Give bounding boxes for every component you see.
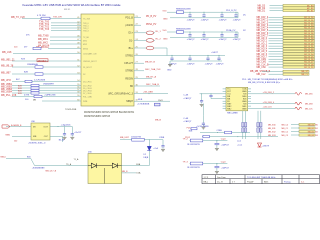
wire to resistor bar: [270, 5, 284, 7]
resistor bar MC_B1: [283, 9, 315, 11]
U8 right pin1 wire: [50, 126, 65, 128]
svg-text:MB_C2: MB_C2: [282, 131, 290, 133]
svg-text:MB_DAT_4: MB_DAT_4: [257, 27, 269, 30]
capacitor C chain: [221, 12, 223, 15]
wire to resistor bar: [269, 48, 284, 50]
svg-text:TX8_TX3: TX8_TX3: [39, 28, 50, 31]
svg-text:MB: MB: [33, 99, 37, 101]
svg-text:B1A: B1A: [136, 163, 141, 166]
wire D30 out: [122, 165, 150, 167]
U1 right pin REGIN stub: [134, 77, 141, 79]
svg-text:PWB: PWB: [83, 101, 88, 103]
svg-text:47K: 47K: [26, 35, 30, 37]
resistor bar MC_B_D9: [283, 66, 315, 68]
svg-text:MB_CLK: MB_CLK: [305, 108, 313, 110]
wire top rail: [120, 139, 163, 141]
wire MLB row: [141, 100, 170, 102]
U1 right pin B1+ stub: [134, 47, 141, 49]
svg-text:MB_DB3: MB_DB3: [305, 103, 313, 105]
svg-text:+2B079: +2B079: [262, 146, 270, 148]
resistor bar MC_B_D7: [283, 61, 315, 63]
ground C72: [70, 136, 74, 138]
svg-text:TCG 8B-6,8W TCA05-8B 64Gr: TCG 8B-6,8W TCA05-8B 64Gr: [247, 176, 276, 179]
ground for C61: [200, 103, 204, 105]
small power box: [155, 103, 161, 106]
svg-text:Pamog: Pamog: [284, 181, 290, 183]
svg-text:MB_TX80: MB_TX80: [38, 34, 49, 37]
ground: [215, 148, 219, 150]
harness wire +CB_DB3_4: [251, 103, 295, 105]
svg-text:D3_CFG1: D3_CFG1: [83, 81, 92, 83]
svg-text:+CAPQT: +CAPQT: [219, 38, 228, 41]
capacitor C chain3: [207, 55, 209, 58]
svg-text:T1_A: T1_A: [74, 158, 79, 161]
J2 pin left B1 stub: [223, 100, 226, 102]
svg-text:RL_2: RL_2: [156, 39, 162, 41]
resistor R15: [35, 73, 43, 75]
svg-text:MB.MB07: MB.MB07: [38, 60, 46, 62]
svg-text:MBC=MBB: MBC=MBB: [227, 112, 238, 114]
svg-text:MB_DB1: MB_DB1: [305, 94, 313, 96]
svg-text:+CAPQT: +CAPQT: [216, 63, 225, 66]
J2 pin left MBJ stub: [223, 108, 226, 110]
J2 pin left MB stub: [223, 98, 226, 100]
U1 left pin TX8_0 wire: [51, 22, 81, 24]
wire to resistor bar: [269, 32, 284, 34]
svg-text:PQQA *: PQQA *: [247, 180, 254, 183]
wire to resistor bar: [269, 45, 284, 47]
svg-text:Da_ B: Da_ B: [217, 181, 223, 183]
resistor bar: [299, 134, 315, 136]
capacitor C62: [210, 94, 212, 96]
U1 right pin B0 stub: [134, 85, 141, 87]
svg-text:D2: D2: [83, 74, 85, 76]
resistor R11 on TX_1V8 line: [41, 17, 50, 20]
svg-text:4.7K DNI: 4.7K DNI: [37, 15, 46, 17]
wire to resistor bar: [269, 27, 284, 29]
svg-text:MB_UH3: MB_UH3: [1, 79, 11, 82]
svg-text:MB_B11: MB_B11: [268, 128, 276, 130]
svg-text:MB_DAT_1: MB_DAT_1: [257, 19, 269, 22]
U1 left pin CLK/UART_CM wire: [13, 53, 81, 55]
svg-text:MB_AD_2: MB_AD_2: [257, 42, 268, 45]
wire to resistor bar: [269, 24, 284, 26]
svg-text:STRB0: STRB0: [125, 70, 133, 73]
resistor bar MC_B_D8: [283, 63, 315, 65]
chain3 ground rail: [170, 60, 222, 62]
svg-text:BB+): BB+): [204, 181, 209, 183]
svg-text:RXX: RXX: [21, 58, 26, 60]
svg-text:MB_B: MB_B: [122, 171, 128, 173]
connector J2 block: [226, 87, 248, 111]
resistor bar: [299, 127, 315, 129]
svg-text:+CbC2T: +CbC2T: [74, 132, 82, 134]
svg-text:MX2: MX2: [83, 44, 87, 46]
resistor bar MC_B_D4: [283, 53, 315, 55]
svg-text:MB_B1: MB_B1: [308, 128, 314, 130]
U1 left pin TX_B0 wire: [50, 36, 81, 38]
wire to resistor bar: [269, 56, 284, 58]
svg-text:MCIMX515JM8C IMX515: MCIMX515JM8C IMX515: [84, 116, 111, 118]
J2 pin right T1B stub: [248, 93, 251, 95]
svg-text:C+68: C+68: [183, 95, 189, 97]
svg-text:MB_AD_0: MB_AD_0: [257, 37, 268, 40]
svg-text:MB_AD_7: MB_AD_7: [257, 55, 268, 58]
svg-text:PD1_B: PD1_B: [125, 17, 133, 20]
common mode choke section: [260, 123, 262, 127]
U1 right pin URC_GROUR/B+AC_3 stub: [134, 93, 141, 95]
resistor bar MB_CL: [283, 73, 309, 75]
svg-text:D1+: D1+: [129, 32, 134, 35]
svg-text:MB_C3: MB_C3: [282, 135, 290, 137]
J2 pin right B05 stub: [248, 98, 251, 100]
chain ground rail: [170, 17, 238, 19]
net label MB_BT_B: [141, 62, 144, 64]
svg-text:MB_C1: MB_C1: [282, 128, 290, 130]
svg-text:MB_B10: MB_B10: [268, 124, 277, 126]
svg-text:+2d977: +2d977: [211, 52, 219, 54]
wire to resistor bar: [269, 19, 284, 21]
svg-text:MB_AD_3: MB_AD_3: [257, 45, 268, 48]
U1 left pin TX8_2 wire: [51, 27, 81, 29]
svg-text:RL5532DNTB: RL5532DNTB: [187, 167, 200, 169]
U1 left pin PUL_CMD wire: [12, 96, 81, 98]
svg-text:500: 500: [25, 99, 29, 101]
svg-text:C2BB: C2BB: [159, 137, 165, 139]
ground: [215, 171, 219, 173]
svg-text:PD5 : MB_TX8 DAT.TX8 MB(BBMHH): PD5 : MB_TX8 DAT.TX8 MB(BBMHH) B2B2 xxBB…: [242, 78, 292, 81]
svg-text:+CAPQT: +CAPQT: [233, 18, 242, 21]
svg-text:MC_B_D9: MC_B_D9: [304, 67, 314, 69]
svg-text:Cqwt: Cqwt: [221, 160, 226, 163]
svg-text:MB_UB1_21: MB_UB1_21: [1, 58, 15, 61]
svg-text:TUV31426B: TUV31426B: [65, 109, 77, 111]
common mode choke section: [257, 123, 259, 127]
svg-text:D1_BOOT: D1_BOOT: [83, 67, 93, 69]
capacitor C chain3: [189, 55, 191, 58]
resistor bar MC_B_D0: [283, 42, 315, 44]
svg-text:B+MB2B_B: B+MB2B_B: [11, 125, 22, 127]
capacitor C71: [64, 127, 66, 132]
feed row2 resistor: [203, 135, 210, 138]
svg-text:CLP: CLP: [44, 136, 49, 138]
title block table: [202, 175, 320, 184]
wire to resistor bar: [270, 7, 284, 9]
svg-text:MB_DAT_3: MB_DAT_3: [257, 24, 269, 27]
IC U8 level shifter: [31, 123, 50, 140]
svg-text:URC_GROUR/B+AC_3: URC_GROUR/B+AC_3: [108, 93, 134, 96]
wire to resistor bar: [269, 29, 284, 31]
capacitor C chain: [189, 32, 191, 35]
resistor bar MC_B_D0: [283, 16, 315, 18]
svg-text:MB_DAT_2: MB_DAT_2: [257, 21, 269, 24]
U1 left pin D4_CFG2 wire: [12, 85, 81, 87]
ground for C63: [201, 126, 205, 128]
DNI red box marker on UB1 row: [37, 59, 48, 62]
svg-text:REGIN: REGIN: [125, 77, 133, 80]
svg-text:MB_UBT: MB_UBT: [120, 137, 130, 139]
svg-text:CMD/UL_BOOT: CMD/UL_BOOT: [83, 61, 98, 63]
capacitor C72 branch: [65, 126, 73, 128]
svg-text:PD5: PD5: [187, 127, 192, 129]
feed row1 left resistor: [191, 128, 197, 130]
wire row STRB1 join chain3 rail: [141, 55, 170, 57]
wire: [190, 140, 228, 142]
svg-text:MB_DAT_7: MB_DAT_7: [257, 34, 269, 37]
svg-text:D1A: D1A: [136, 172, 141, 175]
resistor bar MC_B_D6: [283, 32, 315, 34]
U8 left pin 1 wire: [6, 126, 31, 128]
junction dot: [149, 139, 150, 140]
svg-text:PD5_B_PV: PD5_B_PV: [226, 10, 237, 12]
svg-text:RL_1: RL_1: [156, 31, 162, 33]
svg-text:MB_TX_1V8: MB_TX_1V8: [11, 16, 25, 19]
resistor R18 on PUL line: [34, 95, 42, 97]
chain rail wire: [184, 31, 239, 33]
wire URC row with label: [141, 93, 168, 95]
svg-text:+CAPQT: +CAPQT: [187, 18, 196, 21]
resistor bar MC_B_D5: [283, 56, 315, 58]
svg-text:TX_1V8: TX_1V8: [83, 18, 90, 20]
svg-text:PD5A_PV: PD5A_PV: [146, 23, 157, 26]
svg-text:+CB_DB1_2: +CB_DB1_2: [263, 92, 275, 94]
svg-text:MBJ: MBJ: [227, 108, 231, 110]
resistor: [190, 139, 203, 142]
svg-text:Dan Dam: Dan Dam: [217, 177, 226, 179]
U1 right pin CPLLVT stub: [134, 62, 141, 64]
svg-text:OUT: OUT: [43, 126, 48, 128]
resistor bar: [299, 123, 315, 125]
diode D30B: [96, 165, 112, 167]
junction: [216, 163, 217, 164]
svg-text:GMB: GMB: [242, 108, 247, 110]
svg-text:+CAPQT: +CAPQT: [221, 144, 230, 147]
U1 right pin pASV0 stub: [134, 24, 141, 26]
wire to resistor bar: [269, 73, 284, 75]
common mode choke section: [244, 123, 246, 127]
svg-text:MB_U17_B: MB_U17_B: [46, 170, 57, 172]
wire to resistor bar: [269, 37, 284, 39]
chain rail wire: [184, 11, 239, 13]
U1 right pin D1- stub: [134, 39, 141, 41]
ferrite bead FB row 48 to chain3: [146, 46, 154, 50]
red termination zigzag: [295, 102, 302, 105]
svg-text:+CAPBCXXB: +CAPBCXXB: [44, 93, 56, 96]
resistor bar MB_ST: [283, 70, 309, 72]
svg-text:U30: U30: [31, 121, 36, 123]
diff pair wires 2: [257, 111, 259, 139]
resistor bar MC_B_D8: [283, 37, 315, 39]
svg-text:+SUB4BB3B8: +SUB4BB3B8: [32, 168, 46, 170]
svg-text:MB_U18: MB_U18: [2, 51, 12, 54]
U1 left pin TX_1V8 wire: [22, 17, 81, 19]
svg-text:B2: B2: [316, 131, 318, 133]
feed row 1 wire: [200, 132, 250, 134]
svg-text:+CAPQT: +CAPQT: [221, 167, 230, 170]
J2 pin right GMB stub: [248, 108, 251, 110]
svg-text:C2BB: C2BB: [217, 130, 223, 132]
svg-text:B1: B1: [316, 128, 318, 130]
red termination zigzag: [295, 107, 302, 110]
wire to resistor bar: [269, 53, 284, 55]
J2 pin right MB0 stub: [248, 95, 251, 97]
capacitor C chain: [203, 12, 205, 15]
svg-text:B2B: B2B: [24, 71, 28, 73]
resistor pack R17: [31, 84, 39, 86]
svg-text:2.2uF22B2B: 2.2uF22B2B: [34, 80, 46, 82]
wire to resistor bar: [269, 40, 284, 42]
wire to resistor bar: [269, 35, 284, 37]
IC U1 main processor block: [81, 14, 134, 106]
capacitor C chain3: [218, 55, 220, 58]
diode D30A: [88, 165, 91, 167]
svg-text:+CAPQT: +CAPQT: [205, 63, 214, 66]
resistor bar MC_B_D9: [283, 40, 315, 42]
capacitor C chain: [235, 12, 237, 15]
svg-text:MB_AD_6: MB_AD_6: [257, 53, 268, 56]
U1 right pin MBpH stub: [134, 100, 141, 102]
svg-text:MB_ST: MB_ST: [301, 71, 308, 73]
svg-text:MB_B3: MB_B3: [308, 135, 314, 137]
common mode choke section: [242, 123, 244, 127]
resistor bar MC_B_D4: [283, 27, 315, 29]
diagonal wire segment: [31, 159, 35, 166]
wire BVDD row: [141, 85, 160, 87]
svg-text:MB_B0: MB_B0: [308, 124, 314, 126]
svg-text:500: 500: [14, 141, 17, 143]
svg-text:MB_D1: MB_D1: [258, 10, 266, 12]
wire to resistor bar: [269, 43, 284, 45]
svg-text:TP_3: TP_3: [183, 161, 189, 163]
J2 pin left B1T stub: [223, 90, 226, 92]
svg-text:MB_BT_A: MB_BT_A: [146, 75, 157, 78]
svg-text:I2C: I2C: [243, 30, 247, 32]
svg-text:MB_AD_5: MB_AD_5: [257, 50, 268, 53]
svg-text:MB_MB_STROB_B BB2 B2B (B) x: MB_MB_STROB_B BB2 B2B (B) x: [248, 82, 281, 84]
svg-text:MB0: MB0: [6, 135, 11, 137]
svg-text:PD5A_PV: PD5A_PV: [226, 29, 236, 32]
zener diode D4: [148, 140, 150, 147]
U8 left pin 2 wire: [12, 135, 31, 137]
svg-text:500: 500: [14, 47, 18, 49]
U1 left pin MX1 wire: [50, 40, 81, 42]
svg-text:+CAPQT: +CAPQT: [219, 18, 228, 21]
svg-text:+1745B3B2B: +1745B3B2B: [137, 104, 150, 106]
svg-text:MBpH: MBpH: [126, 100, 133, 103]
wire to resistor bar: [270, 10, 284, 12]
wire to resistor bar: [269, 61, 284, 63]
U1 left pin D2 wire: [12, 73, 81, 75]
U1 left pin MX2 wire: [50, 43, 81, 45]
resistor bar MC_B2: [283, 7, 315, 9]
svg-text:MB_UB_28: MB_UB_28: [1, 64, 14, 67]
resistor: [190, 162, 203, 165]
wire to bar: [291, 127, 299, 129]
svg-text:MB_CL2: MB_CL2: [257, 74, 267, 76]
svg-text:MB_CL: MB_CL: [301, 74, 309, 76]
svg-text:MB_DAT_6: MB_DAT_6: [257, 32, 269, 35]
U1 left pin D5_CFG3 wire: [12, 87, 81, 89]
svg-text:RNB1B2B-DNB: RNB1B2B-DNB: [176, 28, 191, 30]
svg-text:B07: B07: [16, 79, 20, 81]
svg-text:MB_AD_4: MB_AD_4: [257, 48, 268, 51]
svg-text:4.99K: 4.99K: [24, 94, 30, 96]
svg-text:B00: B00: [27, 156, 31, 158]
svg-text:5V0: 5V0: [163, 30, 168, 32]
resistor R14: [35, 66, 43, 68]
svg-text:RL5532DNTB: RL5532DNTB: [187, 144, 200, 146]
svg-text:+Lbgabfrek: +Lbgabfrek: [61, 125, 71, 127]
svg-text:MX1: MX1: [83, 41, 87, 43]
wire to resistor bar: [269, 50, 284, 52]
resistor bar MC_B_D2: [283, 21, 315, 23]
wire: [190, 163, 228, 165]
capacitor: [216, 164, 218, 166]
U1 right pin STRB0 stub: [134, 70, 141, 72]
chain ground rail: [170, 37, 238, 39]
U1 left pin TX8_3 wire: [51, 30, 81, 32]
harness wire +CB_CLK: [251, 108, 295, 110]
svg-text:MX10: MX10: [83, 48, 88, 50]
filter chain 3 rail: [170, 54, 225, 56]
svg-text:D7_CFG5: D7_CFG5: [83, 93, 92, 95]
J2 pin right T2B stub: [248, 103, 251, 105]
svg-text:+CAPQT: +CAPQT: [201, 18, 210, 21]
svg-text:MC_B1: MC_B1: [307, 10, 315, 12]
wire from MB-0: [6, 158, 31, 160]
J2 pin left MB stub: [223, 95, 226, 97]
svg-text:MB_MXX1B: MB_MXX1B: [38, 45, 50, 47]
svg-text:+5C35+BB3B: +5C35+BB3B: [196, 126, 209, 128]
capacitor: [216, 141, 218, 143]
D30 pin2 wire: [122, 172, 137, 174]
resistor bar MC_B_D1: [283, 19, 315, 21]
resistor bar: [299, 130, 315, 132]
svg-text:MB_B: MB_B: [155, 119, 161, 121]
wire to bar: [291, 124, 299, 126]
J2 pin right GMB stub: [248, 90, 251, 92]
resistor bar MC_B_D3: [283, 50, 315, 52]
wire to resistor bar: [269, 63, 284, 65]
J2 pin left MBT stub: [223, 103, 226, 105]
svg-text:PUL_CMD: PUL_CMD: [83, 96, 93, 98]
ferrite bead FB on row y=40.4: [146, 39, 154, 43]
J2 pin left MB2 stub: [223, 105, 226, 107]
svg-text:TX_B0: TX_B0: [83, 37, 89, 39]
svg-text:Lout: Lout: [237, 139, 241, 142]
U1 left pin D7_CFG5 wire: [12, 92, 81, 94]
svg-text:B1+: B1+: [129, 47, 134, 50]
svg-text:+CB_DB3_4: +CB_DB3_4: [263, 102, 275, 104]
svg-text:DB(B: DB(B: [143, 157, 148, 159]
wire to resistor bar: [269, 66, 284, 68]
svg-text:+CAPQT: +CAPQT: [183, 97, 192, 100]
red termination zigzag: [295, 93, 302, 96]
capacitor C chain: [221, 32, 223, 35]
svg-text:MB_UB7: MB_UB7: [1, 71, 11, 74]
svg-text:MB_DAT_5: MB_DAT_5: [257, 29, 269, 32]
svg-text:B3: B3: [316, 135, 318, 137]
resistor R16: [25, 80, 32, 82]
svg-text:MB_CS0: MB_CS0: [257, 67, 267, 69]
svg-text:MI: MI: [33, 126, 36, 128]
diff pair wires 1: [242, 111, 244, 139]
net label DBC_THA_1V8: [141, 70, 144, 72]
svg-text:B0: B0: [316, 124, 318, 126]
wire into diode box: [35, 165, 88, 167]
wire REGIN row: [141, 77, 152, 79]
ground C71: [63, 136, 67, 138]
